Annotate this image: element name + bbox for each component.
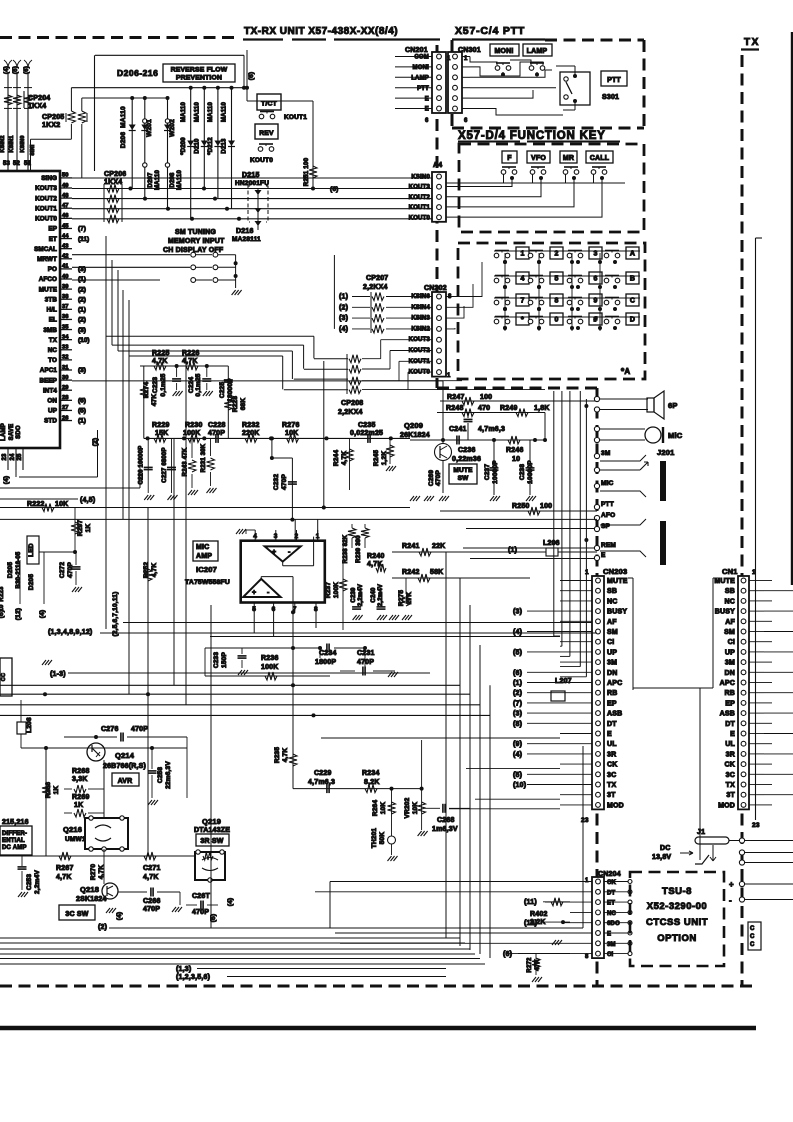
svg-text:CP208: CP208 bbox=[341, 400, 363, 407]
svg-text:KOUT1: KOUT1 bbox=[284, 114, 307, 121]
svg-text:1KX4: 1KX4 bbox=[28, 103, 46, 110]
svg-text:0,1m25: 0,1m25 bbox=[160, 373, 167, 396]
svg-text:MOD: MOD bbox=[718, 802, 735, 809]
svg-text:1800P: 1800P bbox=[315, 659, 336, 666]
svg-text:(10): (10) bbox=[513, 782, 526, 789]
svg-text:C239: C239 bbox=[351, 587, 357, 603]
svg-text:1: 1 bbox=[316, 533, 320, 540]
svg-text:*A: *A bbox=[621, 367, 630, 376]
svg-text:(6): (6) bbox=[24, 66, 30, 74]
svg-text:(4): (4) bbox=[513, 751, 522, 758]
svg-text:KOUT0: KOUT0 bbox=[409, 370, 431, 376]
svg-text:27: 27 bbox=[62, 405, 68, 411]
svg-text:KSIN3: KSIN3 bbox=[411, 316, 430, 322]
svg-text:D206: D206 bbox=[120, 132, 127, 149]
svg-text:MOD: MOD bbox=[607, 802, 624, 809]
svg-text:27K: 27K bbox=[406, 592, 413, 605]
svg-text:B: B bbox=[630, 276, 635, 283]
svg-text:(2,5,6,7,10,11): (2,5,6,7,10,11) bbox=[112, 592, 119, 637]
svg-text:D207: D207 bbox=[148, 172, 154, 188]
svg-text:DT: DT bbox=[725, 721, 735, 728]
svg-text:DN: DN bbox=[607, 670, 618, 677]
svg-text:(7): (7) bbox=[78, 226, 86, 233]
svg-text:LAMP: LAMP bbox=[1, 423, 7, 441]
svg-text:EL: EL bbox=[49, 317, 57, 324]
svg-text:(1): (1) bbox=[339, 294, 348, 301]
svg-text:0,22m36: 0,22m36 bbox=[452, 456, 481, 463]
svg-text:SDO: SDO bbox=[16, 425, 22, 439]
svg-text:10: 10 bbox=[512, 456, 520, 463]
svg-text:100K: 100K bbox=[333, 582, 340, 598]
svg-text:S301: S301 bbox=[602, 94, 619, 101]
svg-text:MA28111: MA28111 bbox=[232, 236, 261, 243]
svg-text:R240: R240 bbox=[367, 553, 385, 560]
svg-text:10000P: 10000P bbox=[492, 460, 499, 484]
svg-text:(4): (4) bbox=[4, 66, 10, 74]
svg-text:13,8V: 13,8V bbox=[652, 854, 671, 861]
svg-text:KOUT3: KOUT3 bbox=[409, 185, 431, 191]
svg-text:R270: R270 bbox=[90, 864, 97, 881]
svg-text:3C SW: 3C SW bbox=[65, 911, 88, 918]
svg-text:38: 38 bbox=[62, 294, 69, 300]
svg-text:DT: DT bbox=[607, 721, 617, 728]
svg-text:8,2K: 8,2K bbox=[364, 779, 380, 786]
svg-text:4,7m6,3: 4,7m6,3 bbox=[478, 426, 505, 433]
svg-text:3C: 3C bbox=[726, 772, 735, 779]
svg-text:(5): (5) bbox=[0, 610, 5, 619]
svg-text:SB: SB bbox=[725, 588, 735, 595]
svg-text:2SK1824: 2SK1824 bbox=[76, 896, 107, 903]
svg-text:(4): (4) bbox=[339, 326, 348, 333]
svg-text:AVR: AVR bbox=[118, 778, 133, 785]
svg-text:C238: C238 bbox=[519, 464, 526, 481]
svg-text:100: 100 bbox=[540, 503, 552, 510]
svg-text:46: 46 bbox=[62, 213, 69, 219]
svg-text:APC: APC bbox=[607, 680, 622, 687]
svg-text:36: 36 bbox=[62, 314, 69, 320]
svg-text:KOUT1: KOUT1 bbox=[409, 359, 431, 365]
svg-text:(3): (3) bbox=[78, 327, 86, 334]
svg-text:LAMP: LAMP bbox=[527, 48, 548, 55]
svg-text:CI: CI bbox=[607, 952, 614, 958]
svg-text:SAVE: SAVE bbox=[9, 424, 15, 441]
svg-text:R243 47K: R243 47K bbox=[183, 447, 189, 476]
svg-text:REVERSE FLOW: REVERSE FLOW bbox=[171, 67, 228, 74]
svg-text:33: 33 bbox=[62, 345, 69, 351]
svg-text:STD: STD bbox=[44, 418, 57, 425]
svg-text:48: 48 bbox=[62, 193, 69, 199]
svg-text:6: 6 bbox=[272, 606, 276, 613]
svg-text:D210: D210 bbox=[195, 138, 201, 154]
svg-text:R222: R222 bbox=[27, 501, 45, 508]
svg-text:APC1: APC1 bbox=[40, 367, 58, 374]
svg-text:B30-2116-05: B30-2116-05 bbox=[16, 551, 22, 588]
svg-text:43: 43 bbox=[62, 243, 69, 249]
svg-text:8: 8 bbox=[448, 294, 452, 300]
svg-text:3TB: 3TB bbox=[45, 296, 58, 303]
svg-text:470P: 470P bbox=[131, 726, 148, 733]
svg-text:R235: R235 bbox=[274, 747, 281, 764]
svg-text:DC AMP: DC AMP bbox=[2, 845, 27, 851]
svg-text:8: 8 bbox=[585, 954, 589, 960]
svg-text:0,022m25: 0,022m25 bbox=[350, 430, 383, 437]
svg-text:R230: R230 bbox=[185, 422, 203, 429]
svg-text:100: 100 bbox=[480, 394, 492, 401]
svg-text:47: 47 bbox=[62, 203, 68, 209]
svg-text:E: E bbox=[425, 107, 429, 113]
svg-text:APC: APC bbox=[720, 680, 735, 687]
svg-text:C223: C223 bbox=[152, 377, 159, 394]
svg-text:TA75W558FU: TA75W558FU bbox=[185, 579, 230, 586]
svg-text:DN: DN bbox=[724, 670, 735, 677]
svg-text:#: # bbox=[593, 317, 597, 324]
svg-text:R264: R264 bbox=[372, 800, 379, 817]
svg-text:AMP: AMP bbox=[196, 553, 212, 560]
svg-text:34: 34 bbox=[62, 334, 69, 340]
svg-text:KSIN1: KSIN1 bbox=[9, 135, 15, 152]
svg-text:KSIN4: KSIN4 bbox=[411, 305, 430, 311]
svg-text:470P: 470P bbox=[192, 909, 209, 916]
svg-text:R232: R232 bbox=[242, 422, 260, 429]
svg-text:8: 8 bbox=[554, 298, 558, 305]
svg-text:MONI: MONI bbox=[413, 65, 430, 71]
svg-text:MRWT: MRWT bbox=[37, 256, 57, 263]
svg-text:10K: 10K bbox=[55, 501, 68, 508]
svg-text:CALL: CALL bbox=[590, 155, 610, 162]
svg-text:TX: TX bbox=[726, 782, 735, 789]
svg-text:KOUT2: KOUT2 bbox=[35, 195, 57, 202]
svg-text:C: C bbox=[630, 298, 635, 305]
svg-text:MONI: MONI bbox=[494, 48, 513, 55]
svg-text:NC: NC bbox=[607, 911, 617, 917]
svg-text:22K: 22K bbox=[432, 543, 445, 550]
svg-text:KOUT3: KOUT3 bbox=[35, 185, 57, 192]
svg-text:4,7K: 4,7K bbox=[143, 874, 159, 881]
svg-text:(4): (4) bbox=[227, 898, 234, 907]
svg-text:UL: UL bbox=[725, 741, 735, 748]
svg-text:(4): (4) bbox=[39, 610, 46, 619]
svg-text:C229: C229 bbox=[314, 770, 332, 777]
svg-text:TH201: TH201 bbox=[371, 828, 378, 849]
svg-text:X52-3290-00: X52-3290-00 bbox=[647, 901, 707, 912]
svg-text:R223: R223 bbox=[0, 586, 5, 602]
svg-text:X57-C/4 PTT: X57-C/4 PTT bbox=[455, 25, 525, 37]
svg-text:R248: R248 bbox=[446, 405, 464, 412]
svg-text:ET: ET bbox=[607, 901, 615, 907]
svg-text:215,216: 215,216 bbox=[2, 819, 29, 826]
svg-text:C272: C272 bbox=[59, 562, 66, 579]
svg-text:E: E bbox=[601, 552, 606, 559]
svg-text:CK: CK bbox=[607, 762, 618, 769]
svg-text:EP: EP bbox=[48, 226, 57, 233]
svg-text:2,2KX4: 2,2KX4 bbox=[363, 284, 388, 291]
svg-text:C235: C235 bbox=[358, 422, 376, 429]
svg-text:(1): (1) bbox=[513, 680, 522, 687]
svg-text:C231: C231 bbox=[357, 650, 375, 657]
svg-text:150P: 150P bbox=[221, 652, 228, 668]
svg-text:25: 25 bbox=[17, 453, 23, 461]
svg-text:SM: SM bbox=[724, 629, 735, 636]
svg-text:TX: TX bbox=[744, 37, 760, 48]
svg-text:Q214: Q214 bbox=[115, 751, 135, 760]
svg-text:220K: 220K bbox=[242, 430, 260, 437]
svg-text:SW: SW bbox=[458, 475, 470, 482]
svg-text:KOUT3: KOUT3 bbox=[409, 337, 431, 343]
svg-text:2,2m4V: 2,2m4V bbox=[378, 584, 384, 606]
svg-text:42: 42 bbox=[62, 254, 68, 260]
svg-text:23: 23 bbox=[2, 453, 8, 461]
svg-text:6: 6 bbox=[425, 118, 429, 124]
svg-text:C: C bbox=[750, 926, 755, 932]
svg-text:(2): (2) bbox=[98, 924, 107, 931]
svg-text:4,7K: 4,7K bbox=[56, 874, 72, 881]
svg-text:R239 390: R239 390 bbox=[356, 535, 362, 563]
svg-text:RB: RB bbox=[724, 690, 735, 697]
svg-text:E: E bbox=[607, 932, 611, 938]
svg-text:L208: L208 bbox=[26, 717, 33, 733]
svg-text:KSIN6: KSIN6 bbox=[411, 294, 430, 300]
svg-text:CI: CI bbox=[607, 639, 614, 646]
svg-text:-: - bbox=[729, 896, 732, 905]
svg-text:2: 2 bbox=[554, 251, 558, 258]
svg-text:NC: NC bbox=[607, 598, 618, 605]
svg-text:(1,2,3,5,6): (1,2,3,5,6) bbox=[176, 974, 210, 981]
svg-text:3R: 3R bbox=[726, 751, 735, 758]
svg-text:DTA143ZE: DTA143ZE bbox=[194, 827, 230, 834]
svg-text:C253: C253 bbox=[26, 874, 33, 891]
svg-text:+: + bbox=[729, 880, 734, 889]
svg-text:2: 2 bbox=[295, 533, 299, 540]
svg-text:(3): (3) bbox=[339, 315, 348, 322]
svg-text:C26T: C26T bbox=[192, 893, 210, 900]
svg-text:4,7m6,3: 4,7m6,3 bbox=[308, 779, 335, 786]
svg-text:470P: 470P bbox=[281, 474, 288, 490]
svg-text:EP: EP bbox=[725, 700, 735, 707]
svg-text:W201: W201 bbox=[146, 119, 153, 137]
svg-text:C: C bbox=[750, 934, 755, 940]
svg-text:KOUT0: KOUT0 bbox=[409, 215, 431, 221]
svg-text:CTCSS UNIT: CTCSS UNIT bbox=[646, 917, 708, 928]
svg-text:MUTE: MUTE bbox=[453, 467, 473, 474]
svg-text:(6): (6) bbox=[503, 951, 512, 958]
svg-text:R250: R250 bbox=[512, 503, 530, 510]
svg-text:KOUT2: KOUT2 bbox=[409, 195, 431, 201]
svg-text:X57-D/4 FUNCTION KEY: X57-D/4 FUNCTION KEY bbox=[458, 130, 606, 142]
svg-text:*D212: *D212 bbox=[208, 137, 214, 155]
svg-text:KOUT1: KOUT1 bbox=[35, 205, 57, 212]
svg-text:31: 31 bbox=[62, 365, 69, 371]
svg-text:CN201: CN201 bbox=[405, 47, 428, 54]
svg-text:UL: UL bbox=[607, 741, 617, 748]
svg-text:(5): (5) bbox=[513, 649, 522, 656]
svg-text:C233: C233 bbox=[213, 652, 220, 669]
svg-text:Q209: Q209 bbox=[404, 421, 423, 430]
svg-text:2,2KX4: 2,2KX4 bbox=[338, 409, 363, 416]
svg-text:UMW1: UMW1 bbox=[65, 836, 86, 843]
svg-text:MUTE: MUTE bbox=[39, 286, 57, 293]
svg-text:VFO: VFO bbox=[531, 155, 546, 162]
svg-text:REV: REV bbox=[259, 130, 274, 137]
svg-text:(2): (2) bbox=[78, 317, 86, 324]
svg-text:UP: UP bbox=[48, 408, 57, 415]
svg-text:R241: R241 bbox=[402, 543, 420, 550]
svg-text:(5): (5) bbox=[513, 772, 522, 779]
svg-text:MA110: MA110 bbox=[195, 102, 201, 122]
svg-text:BUSY: BUSY bbox=[715, 609, 735, 616]
svg-text:1: 1 bbox=[585, 569, 589, 576]
svg-text:MUTE: MUTE bbox=[607, 578, 628, 585]
svg-text:22m6,3V: 22m6,3V bbox=[165, 761, 172, 789]
svg-text:R238 82K: R238 82K bbox=[343, 534, 349, 563]
svg-text:COM: COM bbox=[414, 55, 429, 61]
svg-text:41: 41 bbox=[62, 264, 69, 270]
svg-text:E: E bbox=[607, 731, 612, 738]
svg-text:470P: 470P bbox=[435, 470, 442, 486]
svg-text:R237: R237 bbox=[325, 582, 332, 599]
svg-text:(4): (4) bbox=[116, 912, 123, 921]
svg-text:3M: 3M bbox=[725, 660, 735, 667]
svg-text:2,2m4V: 2,2m4V bbox=[34, 870, 41, 894]
svg-text:MiC: MiC bbox=[668, 431, 683, 440]
svg-text:HN2001FU: HN2001FU bbox=[235, 180, 269, 187]
svg-text:ASB: ASB bbox=[720, 711, 735, 718]
svg-text:MIC: MIC bbox=[601, 480, 614, 487]
svg-text:(6): (6) bbox=[78, 398, 86, 405]
svg-text:D205: D205 bbox=[28, 574, 35, 591]
svg-text:470: 470 bbox=[478, 405, 490, 412]
svg-text:CP205: CP205 bbox=[42, 114, 64, 121]
svg-text:PREVENTION: PREVENTION bbox=[176, 75, 222, 82]
svg-text:C240: C240 bbox=[371, 587, 377, 603]
svg-text:10K: 10K bbox=[412, 802, 419, 815]
svg-text:VR202: VR202 bbox=[404, 797, 411, 818]
svg-text:3: 3 bbox=[274, 533, 278, 540]
svg-text:MIC: MIC bbox=[196, 544, 209, 551]
svg-text:C258: C258 bbox=[157, 767, 164, 784]
svg-text:(11): (11) bbox=[78, 236, 89, 243]
svg-text:SM: SM bbox=[607, 629, 618, 636]
svg-text:4,7K: 4,7K bbox=[152, 358, 168, 365]
svg-text:UP: UP bbox=[725, 649, 735, 656]
svg-text:4: 4 bbox=[253, 533, 257, 540]
svg-text:TSU-8: TSU-8 bbox=[662, 886, 692, 897]
svg-text:(7): (7) bbox=[513, 700, 522, 707]
svg-text:44: 44 bbox=[62, 233, 69, 239]
svg-text:C241: C241 bbox=[449, 426, 467, 433]
svg-text:(9): (9) bbox=[513, 741, 522, 748]
svg-text:OPTION: OPTION bbox=[657, 933, 696, 944]
svg-text:(1): (1) bbox=[78, 418, 86, 425]
svg-text:C234: C234 bbox=[319, 650, 337, 657]
svg-text:40: 40 bbox=[62, 274, 68, 280]
svg-text:DT: DT bbox=[607, 890, 616, 896]
svg-text:(5): (5) bbox=[13, 66, 19, 74]
svg-text:R236: R236 bbox=[261, 655, 279, 662]
svg-text:Q219: Q219 bbox=[202, 817, 221, 826]
svg-text:68K: 68K bbox=[240, 398, 247, 411]
svg-text:CN1: CN1 bbox=[722, 567, 738, 576]
svg-text:C236: C236 bbox=[458, 447, 476, 454]
svg-text:Q218: Q218 bbox=[80, 885, 99, 894]
svg-text:EP: EP bbox=[607, 700, 617, 707]
svg-text:(8): (8) bbox=[513, 721, 522, 728]
svg-text:R242: R242 bbox=[402, 569, 420, 576]
svg-text:1: 1 bbox=[520, 251, 524, 258]
svg-text:2,2m4V: 2,2m4V bbox=[358, 584, 364, 606]
svg-text:ET: ET bbox=[49, 236, 57, 243]
svg-text:LED: LED bbox=[28, 543, 35, 557]
svg-text:D208: D208 bbox=[170, 172, 176, 188]
svg-text:(2): (2) bbox=[92, 438, 99, 447]
svg-text:L207: L207 bbox=[555, 678, 572, 685]
svg-text:TO: TO bbox=[48, 357, 57, 364]
svg-text:R268: R268 bbox=[72, 768, 90, 775]
svg-text:SM TUNING: SM TUNING bbox=[175, 229, 216, 236]
svg-text:AFCO: AFCO bbox=[39, 276, 57, 283]
svg-text:(6): (6) bbox=[248, 72, 255, 81]
svg-text:(1,3,4,8,9,12): (1,3,4,8,9,12) bbox=[48, 629, 92, 636]
svg-text:C225: C225 bbox=[219, 382, 226, 399]
svg-text:(3): (3) bbox=[513, 609, 522, 616]
svg-text:ENTIAL: ENTIAL bbox=[2, 838, 25, 844]
svg-text:26: 26 bbox=[62, 415, 69, 421]
svg-text:R269: R269 bbox=[72, 794, 90, 801]
svg-text:470P: 470P bbox=[357, 659, 374, 666]
svg-text:PO: PO bbox=[48, 266, 57, 273]
svg-text:D205: D205 bbox=[7, 562, 14, 579]
svg-text:29: 29 bbox=[62, 385, 69, 391]
svg-text:3M: 3M bbox=[607, 942, 616, 948]
svg-text:1: 1 bbox=[447, 56, 451, 62]
svg-text:(11): (11) bbox=[524, 899, 537, 906]
svg-text:PTT: PTT bbox=[607, 77, 621, 84]
svg-text:A: A bbox=[630, 251, 635, 258]
svg-text:R228: R228 bbox=[232, 396, 239, 413]
svg-text:C276: C276 bbox=[101, 726, 119, 733]
svg-text:KOUT0: KOUT0 bbox=[250, 157, 273, 164]
svg-text:3T: 3T bbox=[607, 792, 616, 799]
svg-text:PTT: PTT bbox=[601, 501, 614, 508]
svg-text:(3): (3) bbox=[513, 711, 522, 718]
svg-text:3,3K: 3,3K bbox=[72, 776, 88, 783]
svg-text:R234: R234 bbox=[362, 770, 380, 777]
svg-text:R267: R267 bbox=[56, 865, 74, 872]
svg-text:0: 0 bbox=[554, 317, 558, 324]
svg-text:D213: D213 bbox=[222, 138, 228, 154]
svg-text:CN202: CN202 bbox=[424, 285, 447, 292]
svg-text:R231 39K: R231 39K bbox=[201, 443, 207, 472]
svg-text:C237: C237 bbox=[484, 464, 491, 481]
svg-text:6P: 6P bbox=[668, 401, 678, 410]
svg-text:49: 49 bbox=[62, 183, 69, 189]
svg-text:CC: CC bbox=[1, 673, 7, 681]
svg-text:NC: NC bbox=[724, 598, 735, 605]
svg-text:(3): (3) bbox=[78, 367, 86, 374]
svg-text:SP: SP bbox=[601, 523, 611, 530]
svg-text:R247: R247 bbox=[447, 394, 465, 401]
svg-text:58K: 58K bbox=[430, 569, 443, 576]
svg-text:28: 28 bbox=[62, 395, 69, 401]
svg-text:(12): (12) bbox=[15, 608, 22, 620]
svg-text:REM: REM bbox=[601, 542, 616, 549]
svg-text:D: D bbox=[630, 317, 635, 324]
svg-text:3C: 3C bbox=[607, 772, 616, 779]
svg-text:KOUT0: KOUT0 bbox=[35, 216, 57, 223]
svg-text:(6): (6) bbox=[513, 670, 522, 677]
svg-text:100K: 100K bbox=[261, 664, 279, 671]
svg-text:ASB: ASB bbox=[607, 711, 622, 718]
svg-text:3R SW: 3R SW bbox=[200, 838, 223, 845]
